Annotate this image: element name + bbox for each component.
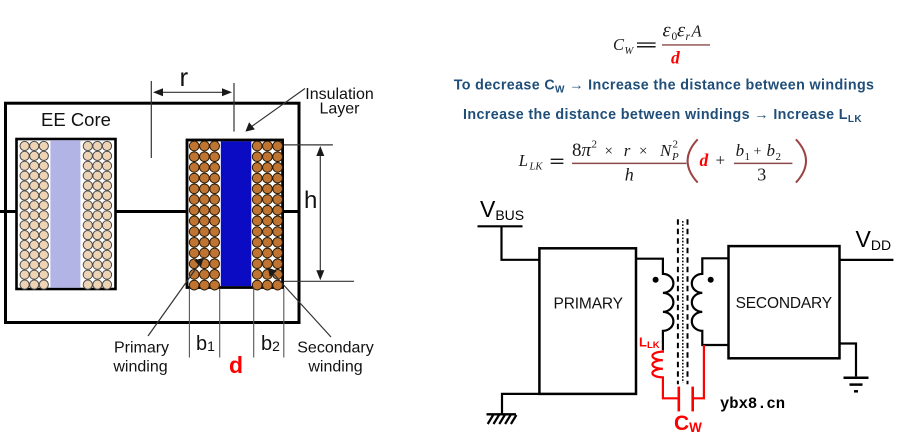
svg-text:LK: LK [529, 162, 544, 173]
svg-text:L: L [518, 151, 528, 170]
svg-text:CW: CW [674, 412, 702, 433]
svg-text:LLK: LLK [639, 335, 660, 352]
svg-text:2: 2 [776, 151, 782, 163]
svg-text:N: N [659, 141, 673, 160]
svg-text:b: b [767, 141, 776, 160]
svg-text:To decrease CW → Increase the: To decrease CW → Increase the distance b… [454, 78, 875, 96]
svg-text:b2: b2 [261, 333, 280, 355]
svg-text:winding: winding [112, 359, 167, 376]
svg-text:b1: b1 [196, 333, 215, 355]
svg-text:VDD: VDD [856, 226, 892, 253]
svg-text:+: + [754, 145, 762, 160]
svg-text:r: r [180, 62, 189, 92]
svg-text:W: W [625, 46, 635, 57]
svg-text:×: × [605, 144, 613, 160]
svg-text:PRIMARY: PRIMARY [554, 295, 624, 312]
svg-text:ybx8.cn: ybx8.cn [720, 395, 785, 413]
svg-text:h: h [625, 164, 634, 184]
svg-text:8: 8 [572, 140, 582, 161]
svg-text:d: d [229, 352, 243, 378]
svg-text:Primary: Primary [114, 340, 169, 357]
svg-text:3: 3 [757, 164, 766, 184]
svg-text:π: π [582, 140, 592, 161]
svg-text:h: h [304, 187, 317, 214]
svg-text:×: × [639, 144, 647, 160]
svg-text:2: 2 [592, 139, 598, 151]
svg-text:ε: ε [663, 20, 672, 42]
svg-text:d: d [700, 150, 709, 170]
svg-text:C: C [613, 35, 625, 54]
svg-text:r: r [624, 141, 631, 160]
svg-text:1: 1 [745, 151, 751, 163]
svg-text:Secondary: Secondary [297, 340, 374, 357]
svg-text:P: P [671, 151, 679, 163]
svg-text:Increase the distance between: Increase the distance between windings →… [463, 107, 862, 125]
svg-text:Layer: Layer [319, 101, 360, 118]
svg-text:+: + [716, 151, 726, 170]
svg-text:r: r [686, 31, 691, 43]
svg-text:d: d [671, 47, 680, 67]
svg-text:A: A [691, 22, 703, 41]
svg-text:b: b [736, 141, 745, 160]
svg-text:2: 2 [673, 139, 679, 151]
svg-text:SECONDARY: SECONDARY [736, 295, 833, 312]
svg-text:winding: winding [307, 359, 362, 376]
svg-text:EE Core: EE Core [41, 109, 111, 130]
svg-text:VBUS: VBUS [480, 196, 524, 223]
